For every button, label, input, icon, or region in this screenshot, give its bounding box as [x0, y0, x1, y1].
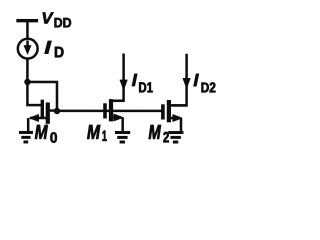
- power VDD supply bar: [16, 19, 38, 22]
- ground at M1 source: [115, 132, 130, 142]
- label ID: [45, 41, 64, 57]
- label VDD: [43, 12, 71, 27]
- wire node A to drain of M0: [27, 82, 57, 111]
- transistor M1: [103, 99, 123, 121]
- ground at M2 source: [168, 133, 183, 143]
- wire VDD bar to current source: [26, 22, 29, 38]
- wire drain of M1 with current direction arrow ID1: [113, 53, 127, 100]
- wire source of M0 to ground: [27, 118, 30, 132]
- wire current source to node A: [26, 59, 29, 82]
- wire gate line from node B to gates of M1 and M2: [57, 110, 163, 113]
- label ID1: [132, 74, 153, 93]
- wire source of M1 to ground: [121, 118, 124, 132]
- ground at M0 source: [19, 132, 33, 142]
- label ID2: [194, 74, 216, 93]
- transistor M2: [161, 100, 187, 122]
- label M1: [87, 125, 106, 141]
- node A junction dot: [25, 79, 31, 85]
- wire node A to gate of M0: [27, 82, 41, 105]
- label M2: [149, 125, 169, 142]
- node B drain-gate junction dot: [54, 108, 60, 114]
- label M0: [35, 125, 57, 143]
- wire source of M2 to ground: [180, 118, 183, 131]
- current source ID: [18, 39, 38, 59]
- transistor M0: [30, 100, 57, 124]
- wire drain of M2 with current direction arrow ID2: [171, 54, 190, 106]
